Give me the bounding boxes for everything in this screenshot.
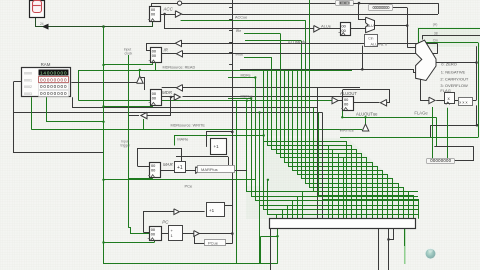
svg-text:ALUOUT: ALUOUT [340,91,357,96]
svg-text:ALUMode: ALUMode [288,40,307,45]
svg-text:2: CARRY/OUT: 2: CARRY/OUT [440,77,468,82]
svg-text:0: ZERO: 0: ZERO [441,62,457,67]
svg-text:+1: +1 [177,165,183,171]
svg-text:00000000: 00000000 [40,84,67,89]
svg-text:MDRe: MDRe [241,74,251,78]
svg-text:PC: PC [162,220,169,225]
svg-text:0002: 0002 [24,85,32,89]
svg-text:24: 24 [40,22,44,26]
svg-text:Cin: Cin [368,36,373,40]
svg-text:1: NEGATIVE: 1: NEGATIVE [441,69,466,74]
svg-text:MAR: MAR [163,162,174,167]
svg-text:WRITEe: WRITEe [340,129,354,133]
svg-text:00000000: 00000000 [430,158,451,163]
svg-text:MARPlus: MARPlus [201,167,218,172]
svg-text:MDRsource: READ: MDRsource: READ [163,66,196,70]
svg-text:MARe: MARe [177,136,189,141]
svg-text:RAM: RAM [41,62,51,67]
svg-text:ACC: ACC [163,7,174,12]
svg-text:MDR: MDR [162,90,173,95]
svg-text:00000000: 00000000 [373,5,391,10]
svg-text:38: 38 [434,31,438,35]
svg-text:0001: 0001 [24,78,32,82]
svg-text:ACCue: ACCue [235,15,247,19]
svg-text:14000000: 14000000 [40,71,67,76]
svg-text:FLAGe: FLAGe [414,111,428,116]
svg-text:clock: clock [125,52,133,56]
svg-text:+1: +1 [209,208,215,213]
svg-text:00000000: 00000000 [40,77,67,82]
svg-text:ALU4-8: 0: ALU4-8: 0 [371,43,388,47]
svg-text:IRe: IRe [236,29,242,33]
svg-text:00000000: 00000000 [339,0,351,5]
svg-text:PCe: PCe [185,183,194,188]
svg-text:ALUe: ALUe [321,24,332,29]
svg-text:Cin: Cin [433,39,438,43]
svg-text:(A): (A) [433,22,438,26]
svg-text:0003: 0003 [24,92,32,96]
svg-text:trigger: trigger [121,144,131,148]
svg-text:00000000: 00000000 [40,91,67,96]
svg-text:0000: 0000 [24,72,32,76]
svg-text:MDRsource: WRITE: MDRsource: WRITE [171,124,206,128]
svg-text:+1: +1 [214,144,220,149]
svg-text:3: OVERFLOW: 3: OVERFLOW [440,83,468,88]
svg-text:ALUOUTue: ALUOUTue [356,112,378,117]
svg-text:ALU: ALU [367,24,374,28]
svg-text:PCue: PCue [208,240,219,245]
svg-text:x x x: x x x [459,99,467,104]
